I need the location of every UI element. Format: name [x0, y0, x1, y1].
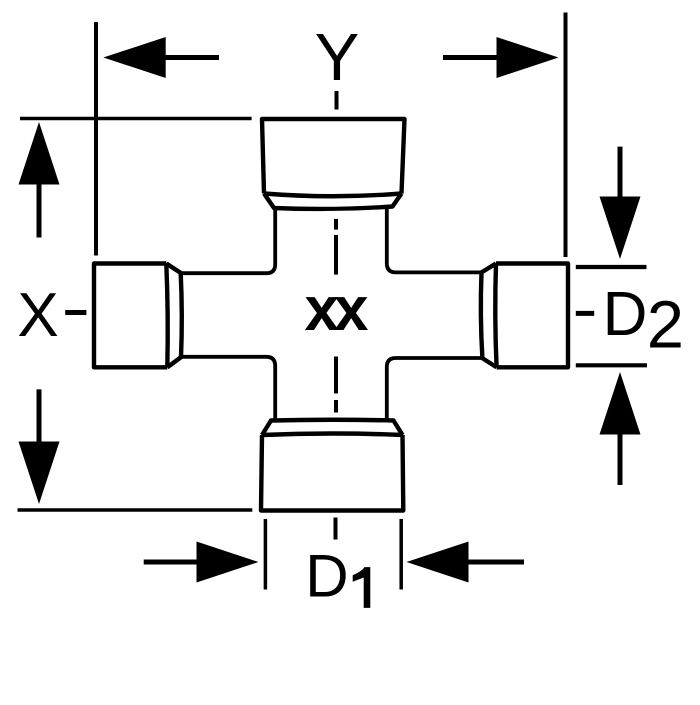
svg-text:xx: xx: [305, 275, 369, 344]
svg-text:2: 2: [647, 288, 684, 363]
svg-text:Y: Y: [315, 20, 360, 95]
svg-text:D: D: [603, 280, 648, 349]
svg-text:D: D: [305, 542, 348, 609]
svg-text:X: X: [17, 281, 58, 350]
